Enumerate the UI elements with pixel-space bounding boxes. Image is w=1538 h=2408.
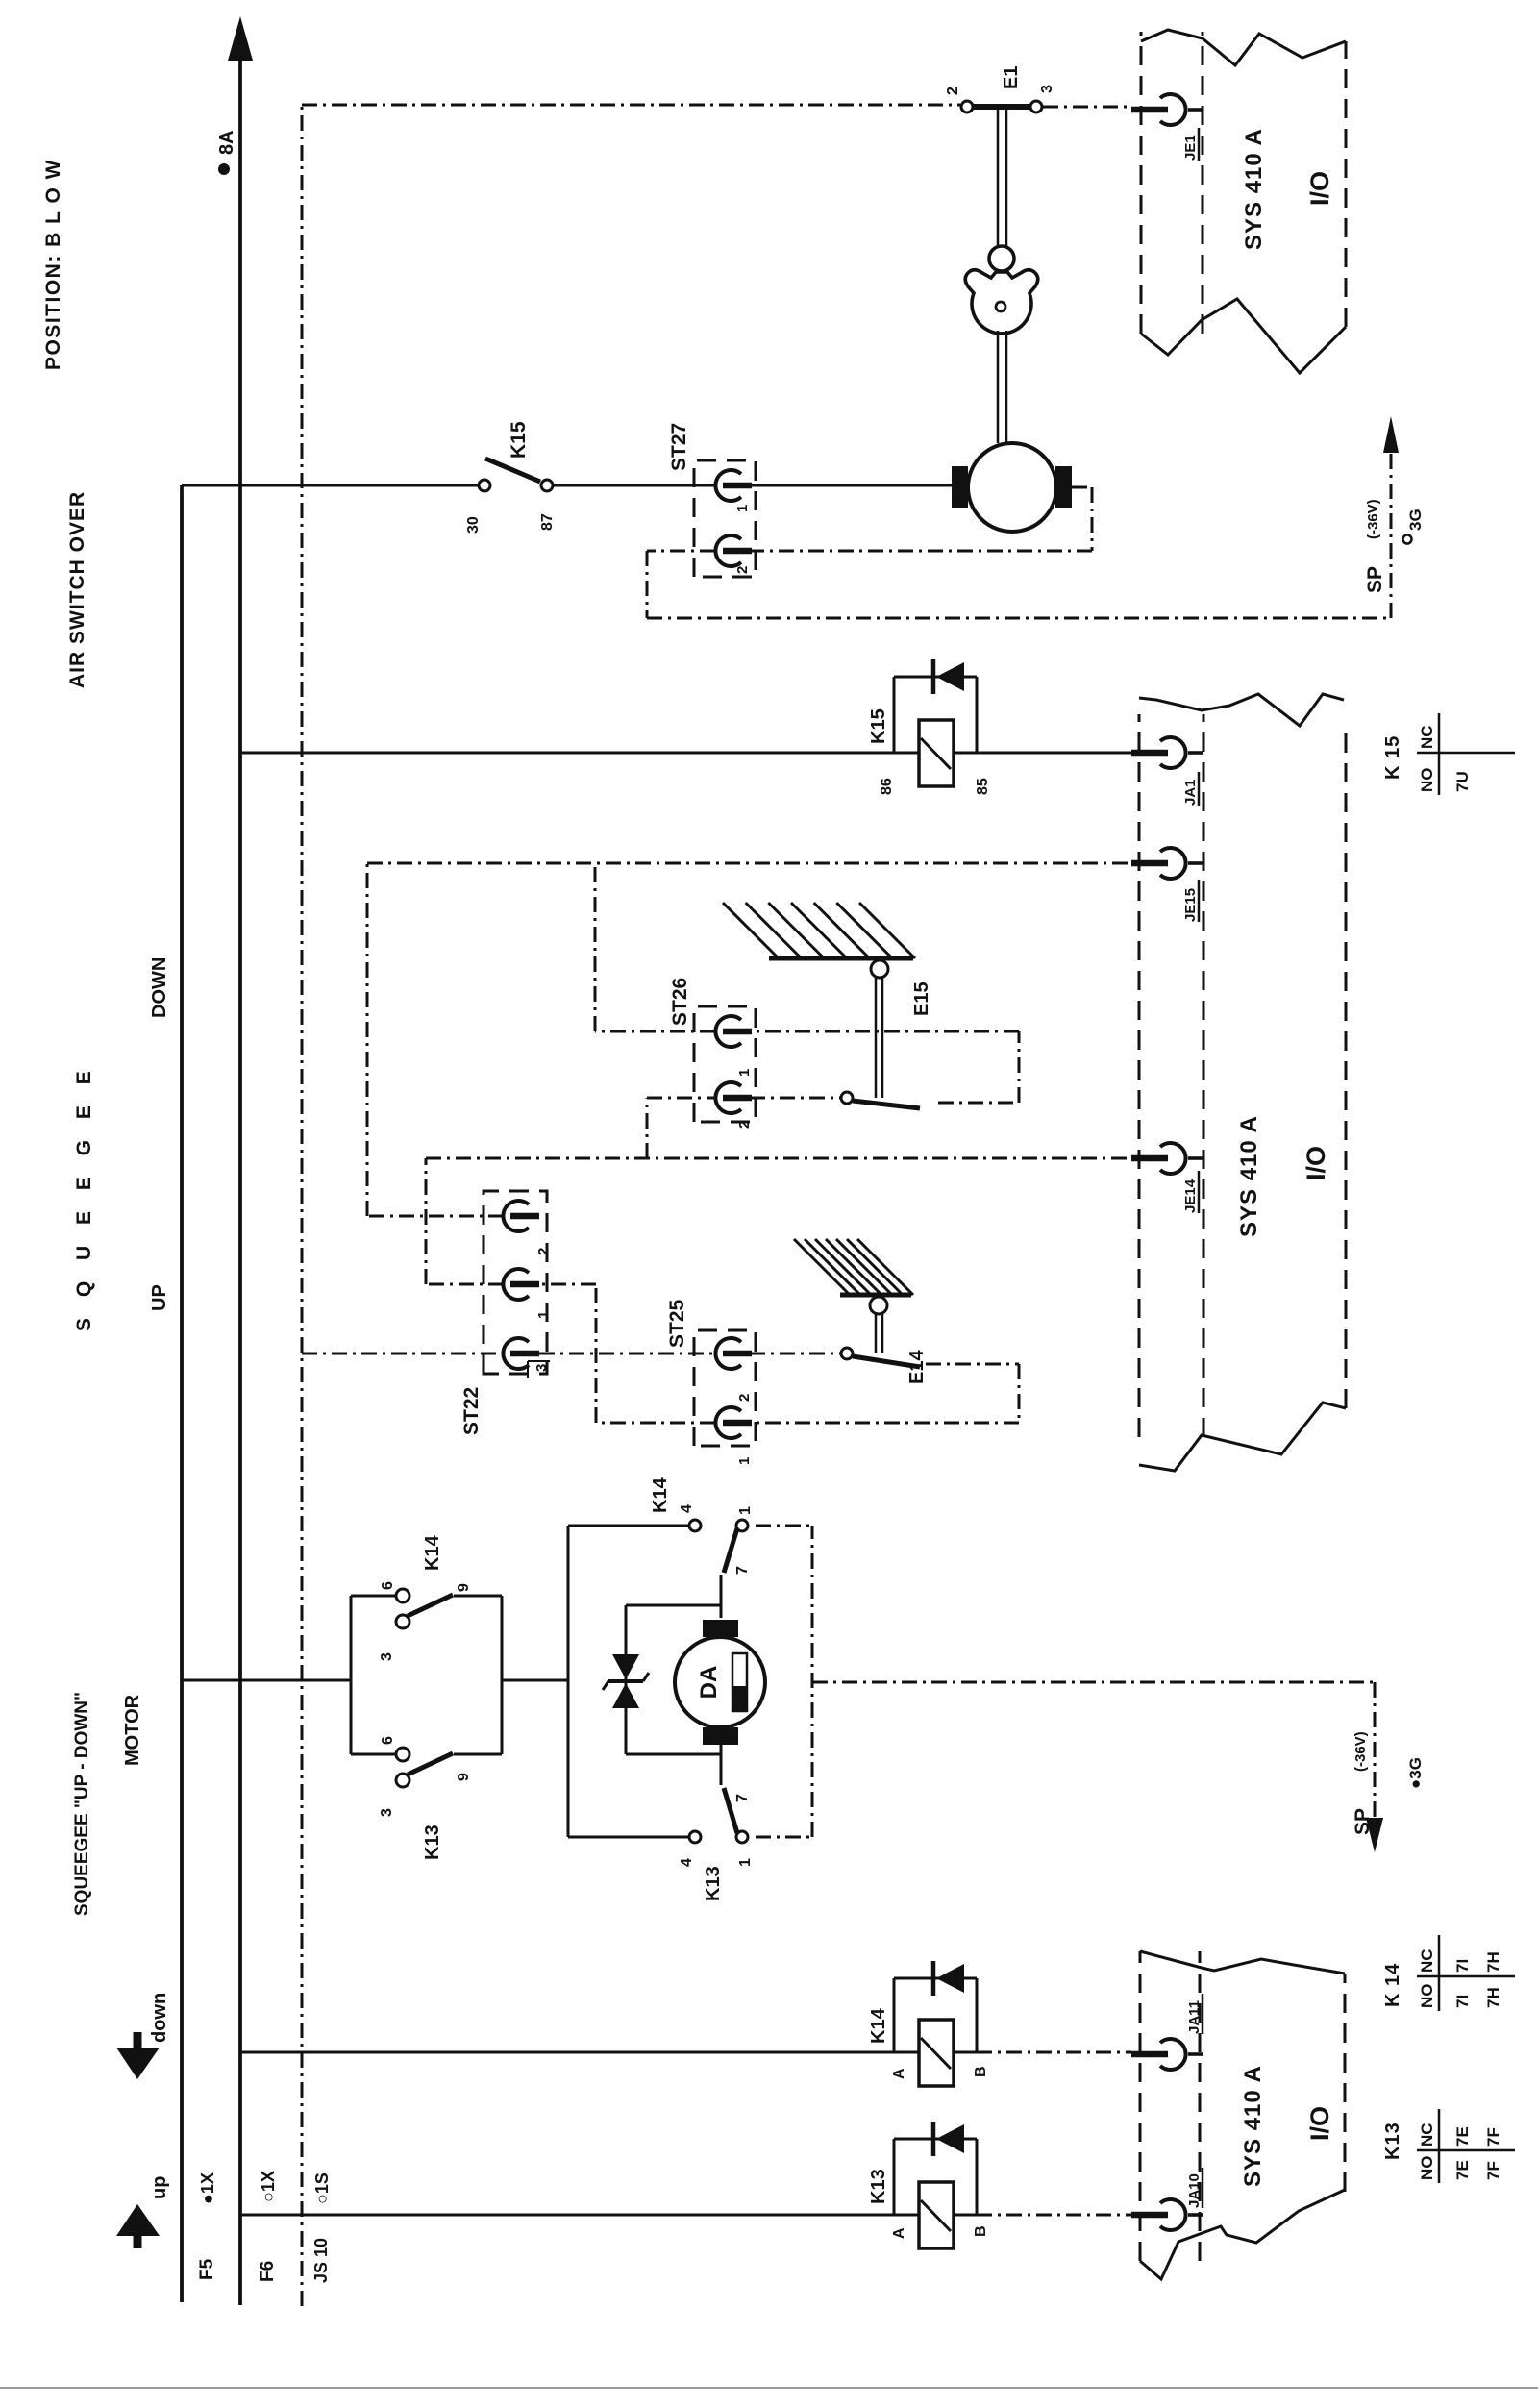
svg-text:A: A	[891, 2068, 907, 2079]
wire contact box to DA box	[502, 1679, 568, 1682]
label ST22	[460, 1387, 483, 1435]
svg-text:K14: K14	[868, 2007, 889, 2044]
svg-text:3: 3	[379, 1808, 395, 1817]
svg-text:K13: K13	[703, 1866, 724, 1901]
label K15 (coil)	[868, 708, 889, 744]
I/O block SYS 410 A (top)	[1141, 30, 1346, 373]
wire rail R1 (F6 feed) with arrow	[228, 16, 253, 2305]
svg-text:NC: NC	[1418, 2123, 1436, 2147]
pin 86 (K15)	[879, 778, 895, 795]
pin 3 (ST22)	[503, 1338, 550, 1378]
svg-text:8A: 8A	[216, 130, 237, 155]
svg-text:7I: 7I	[1453, 1959, 1472, 1973]
label E14	[906, 1350, 928, 1384]
connector JE14	[1131, 1143, 1203, 1213]
svg-text:86: 86	[879, 778, 895, 795]
title UP	[149, 1284, 170, 1311]
shaft pump to E1 float	[998, 109, 1006, 247]
net 1X (F6)	[259, 2171, 278, 2202]
svg-text:87: 87	[539, 513, 556, 531]
svg-text:K 15: K 15	[1382, 735, 1403, 780]
svg-text:K13: K13	[868, 2169, 889, 2204]
svg-text:F6: F6	[258, 2261, 278, 2282]
I/O block SYS 410 A (bottom)	[1140, 1951, 1345, 2279]
net 3G (lower)	[1406, 1757, 1425, 1789]
svg-text:SP: SP	[1352, 1808, 1374, 1835]
svg-text:K14: K14	[650, 1477, 671, 1513]
table K15 NO/NC	[1382, 713, 1515, 795]
pin 87 (K15)	[539, 513, 556, 531]
svg-text:NO: NO	[1418, 768, 1436, 793]
pin 3 (E1)	[1039, 85, 1055, 93]
svg-text:NC: NC	[1418, 1949, 1436, 1973]
wire K13 coil branch	[240, 2214, 1131, 2217]
svg-text:NC: NC	[1418, 725, 1436, 749]
svg-text:○1S: ○1S	[312, 2172, 332, 2204]
pin 1 (ST22)	[503, 1269, 552, 1319]
label K14 (DA switch)	[650, 1477, 671, 1513]
connector JE15	[1131, 848, 1203, 922]
svg-text:JA1: JA1	[1182, 779, 1199, 806]
svg-text:●1X: ●1X	[198, 2172, 217, 2204]
label ST27	[668, 423, 690, 471]
label JS10	[311, 2238, 331, 2283]
title MOTOR	[122, 1694, 143, 1766]
wire E1 pin3 to JE1	[1043, 106, 1131, 109]
svg-text:JE14: JE14	[1182, 1179, 1199, 1213]
net 8A marker	[216, 130, 237, 175]
wire E15 blade to ST26.1	[595, 863, 1019, 1103]
contact K14 (changeover)	[396, 1589, 453, 1628]
transil diode (DA)	[603, 1605, 720, 1754]
svg-text:K 14: K 14	[1382, 1963, 1403, 2007]
svg-text:SP: SP	[1364, 566, 1386, 593]
pin 2 (ST22)	[503, 1201, 552, 1255]
svg-text:4: 4	[679, 1504, 695, 1513]
svg-text:SYS 410 A: SYS 410 A	[1240, 2065, 1266, 2187]
pin 3 (K14 contact)	[379, 1652, 395, 1661]
pin 2 (E1)	[945, 87, 961, 95]
svg-text:(-36V): (-36V)	[1365, 499, 1381, 539]
pin 4 (K13)	[679, 1858, 695, 1867]
pin 30 (K15)	[465, 516, 482, 534]
down arrow	[116, 1993, 170, 2079]
shaft E1 motor-pump	[998, 331, 1006, 443]
svg-text:3: 3	[533, 1364, 550, 1372]
wire branch to ST26.2	[647, 1098, 716, 1158]
connector ST26 box	[694, 1006, 756, 1122]
relay coil K15 with flyback diode	[894, 659, 977, 786]
wire DA return to SP	[812, 1682, 1375, 1821]
limit switch E14	[841, 1297, 920, 1367]
connector JE1	[1131, 94, 1203, 161]
svg-text:6: 6	[380, 1581, 396, 1590]
svg-text:9: 9	[456, 1583, 472, 1592]
label K13 (coil)	[868, 2169, 889, 2204]
wire rail R2 (F5 feed)	[180, 485, 184, 2302]
svg-text:B: B	[973, 2225, 989, 2237]
svg-text:4: 4	[679, 1858, 695, 1867]
wire R2 to K15 contact	[182, 484, 479, 487]
svg-text:7U: 7U	[1453, 771, 1472, 792]
svg-text:K15: K15	[868, 708, 889, 744]
connector JA1	[1131, 737, 1203, 806]
wire E1 motor return	[647, 449, 1391, 618]
pin 6 (K13 contact)	[380, 1736, 396, 1745]
svg-text:POSITION: B L O W: POSITION: B L O W	[42, 159, 64, 370]
pump/blower E1	[965, 246, 1038, 334]
pin B (K13)	[973, 2225, 989, 2237]
svg-text:1: 1	[736, 1457, 753, 1465]
pin 2 (ST26)	[715, 1082, 753, 1129]
title SQUEEGEE "UP - DOWN"	[72, 1692, 92, 1916]
pin 85 (K15)	[975, 778, 991, 795]
svg-text:1: 1	[734, 505, 751, 512]
svg-text:S Q U E E G E E: S Q U E E G E E	[73, 1063, 95, 1331]
svg-text:F5: F5	[197, 2258, 217, 2280]
svg-text:7: 7	[734, 1566, 751, 1575]
svg-text:7H: 7H	[1484, 1951, 1502, 1973]
relay coil K13 with flyback diode	[894, 2122, 977, 2248]
svg-text:K13: K13	[422, 1825, 443, 1860]
title AIR SWITCH OVER	[66, 491, 88, 688]
svg-text:2: 2	[734, 566, 751, 574]
label K13 (DA switch)	[703, 1866, 724, 1901]
svg-text:7I: 7I	[1453, 1995, 1472, 2008]
connector ST22 box	[484, 1191, 547, 1374]
svg-text:30: 30	[465, 516, 482, 534]
title POSITION: B L O W	[42, 159, 64, 370]
up arrow	[116, 2176, 170, 2248]
pin 4 (K14)	[679, 1504, 695, 1513]
pin 1 (K14)	[737, 1506, 754, 1515]
svg-text:1: 1	[736, 1069, 753, 1077]
wire R3-ST22.3-ST25.2-E14 pivot	[302, 1353, 841, 1355]
svg-text:I/O: I/O	[1305, 171, 1334, 206]
svg-text:K14: K14	[422, 1534, 443, 1571]
svg-text:7H: 7H	[1484, 1987, 1502, 2008]
svg-text:(-36V): (-36V)	[1352, 1731, 1369, 1772]
wire ST22.1 to JE14 and E15 branch	[426, 1158, 1131, 1284]
svg-text:ST25: ST25	[666, 1299, 688, 1348]
svg-text:9: 9	[456, 1773, 472, 1781]
svg-text:JE15: JE15	[1182, 888, 1199, 922]
wire R3 to E1 pin2	[302, 104, 960, 107]
pin A (K13)	[891, 2227, 907, 2239]
svg-text:1: 1	[737, 1858, 754, 1867]
svg-text:7: 7	[734, 1794, 751, 1802]
svg-text:7F: 7F	[1484, 2127, 1502, 2147]
scan edge line	[0, 2387, 1538, 2389]
svg-text:DOWN: DOWN	[149, 957, 170, 1018]
pin A (K14)	[891, 2068, 907, 2079]
table K13 NO/NC	[1382, 2109, 1515, 2183]
svg-text:3: 3	[1039, 85, 1055, 93]
wire K14 coil branch	[240, 2051, 1131, 2054]
net 3G (upper)	[1403, 509, 1426, 543]
contact K14-7 (DA up)	[689, 1520, 748, 1618]
wire K15 coil branch	[240, 752, 1131, 755]
DA box outline	[568, 1526, 812, 1837]
pin 6 (K14 contact)	[380, 1581, 396, 1590]
svg-text:1: 1	[737, 1506, 754, 1515]
I/O block SYS 410 A (mid)	[1139, 694, 1346, 1471]
limit switch E15	[750, 960, 920, 1108]
title S Q U E E G E E	[73, 1063, 95, 1331]
svg-text:3G: 3G	[1406, 509, 1425, 531]
motor E1 (pump drive)	[952, 443, 1072, 532]
stop wall E15	[723, 903, 915, 958]
svg-text:●3G: ●3G	[1406, 1757, 1425, 1789]
svg-text:NO: NO	[1418, 2156, 1436, 2181]
wire rail R3 dash-dot (JS10)	[301, 105, 304, 2306]
label E1	[1001, 66, 1022, 89]
pin 7 (K13)	[734, 1794, 751, 1802]
pin 3 (K13 contact)	[379, 1808, 395, 1817]
pin 9 (K13 contact)	[456, 1773, 472, 1781]
svg-text:7E: 7E	[1453, 2160, 1472, 2180]
svg-text:JS 10: JS 10	[311, 2238, 331, 2283]
svg-text:UP: UP	[149, 1284, 170, 1311]
net 1S	[312, 2172, 332, 2204]
pin 1 (ST27)	[715, 470, 752, 512]
pin 1 (ST26)	[715, 1016, 753, 1077]
svg-text:2: 2	[535, 1248, 552, 1255]
contact K15 (NO)	[479, 459, 553, 491]
svg-text:E1: E1	[1001, 66, 1022, 89]
svg-text:MOTOR: MOTOR	[122, 1694, 143, 1766]
connector JA11	[1131, 1994, 1203, 2070]
float switch E1 bar	[961, 101, 1042, 112]
svg-text:○1X: ○1X	[259, 2171, 278, 2202]
wire E14 blade to ST25.1	[539, 1284, 1019, 1423]
svg-text:E15: E15	[911, 981, 932, 1016]
wire rung to contact box	[182, 1679, 351, 1682]
label K15 (contact)	[508, 421, 530, 459]
svg-text:6: 6	[380, 1736, 396, 1745]
label E15	[911, 981, 932, 1016]
svg-text:DA: DA	[696, 1666, 722, 1700]
svg-text:SQUEEGEE "UP - DOWN": SQUEEGEE "UP - DOWN"	[72, 1692, 92, 1916]
svg-text:ST22: ST22	[460, 1387, 483, 1435]
wire ST22.2 to JE15	[367, 863, 1131, 1216]
svg-text:1: 1	[535, 1311, 552, 1319]
net 1X (F5)	[198, 2172, 217, 2204]
pin 2 (ST27)	[715, 535, 752, 574]
svg-text:down: down	[149, 1993, 170, 2043]
pin 9 (K14 contact)	[456, 1583, 472, 1592]
motor DA	[675, 1620, 765, 1745]
svg-text:2: 2	[736, 1394, 753, 1402]
label F6	[258, 2261, 278, 2282]
label K13 (contact)	[422, 1825, 443, 1860]
power SP (-36V) arrow (lower)	[1352, 1731, 1383, 1852]
label K14 (coil)	[868, 2007, 889, 2044]
table K14 NO/NC	[1382, 1935, 1515, 2011]
svg-text:B: B	[973, 2066, 989, 2077]
svg-text:SYS 410 A: SYS 410 A	[1236, 1115, 1262, 1237]
label F5	[197, 2258, 217, 2280]
connector ST27 box	[694, 460, 756, 577]
svg-text:AIR SWITCH OVER: AIR SWITCH OVER	[66, 491, 88, 688]
svg-text:I/O: I/O	[1305, 2106, 1334, 2141]
svg-text:E14: E14	[906, 1350, 928, 1384]
pin 2 (ST25)	[715, 1338, 753, 1402]
svg-text:I/O: I/O	[1302, 1146, 1330, 1180]
relay coil K14 with flyback diode	[894, 1961, 977, 2086]
connector ST25 box	[694, 1330, 756, 1446]
svg-text:K13: K13	[1382, 2122, 1403, 2160]
stop wall E14	[794, 1239, 913, 1295]
title DOWN	[149, 957, 170, 1018]
wire ST27 to E1 motor	[750, 484, 952, 487]
svg-text:A: A	[891, 2227, 907, 2239]
svg-text:NO: NO	[1418, 1984, 1436, 2009]
power SP (-36V) arrow (upper)	[1364, 416, 1399, 593]
svg-text:JE1: JE1	[1182, 135, 1199, 161]
svg-text:7E: 7E	[1453, 2126, 1472, 2147]
pin B (K14)	[973, 2066, 989, 2077]
pin 7 (K14)	[734, 1566, 751, 1575]
connector JA10	[1131, 2168, 1203, 2230]
svg-text:2: 2	[945, 87, 961, 95]
label ST26	[669, 978, 691, 1026]
label K14 (contact)	[422, 1534, 443, 1571]
contact K13 (changeover)	[396, 1748, 453, 1787]
svg-text:3: 3	[379, 1652, 395, 1661]
pin 1 (K13)	[737, 1858, 754, 1867]
contact K13-7 (DA down)	[689, 1745, 748, 1843]
svg-text:SYS 410 A: SYS 410 A	[1241, 128, 1267, 250]
svg-text:ST27: ST27	[668, 423, 690, 471]
svg-text:7F: 7F	[1484, 2161, 1502, 2180]
wire K15 to ST27	[553, 484, 716, 487]
svg-text:K15: K15	[508, 421, 530, 459]
contact box outline	[351, 1596, 502, 1754]
svg-text:up: up	[149, 2176, 170, 2199]
svg-text:ST26: ST26	[669, 978, 691, 1026]
svg-text:85: 85	[975, 778, 991, 795]
label ST25	[666, 1299, 688, 1348]
pin 1 (ST25)	[715, 1407, 753, 1465]
svg-text:2: 2	[736, 1121, 753, 1129]
